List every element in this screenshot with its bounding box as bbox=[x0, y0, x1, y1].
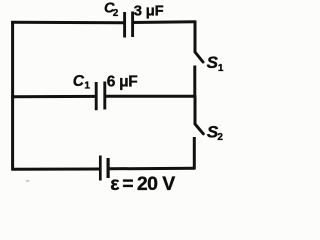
wire S2 lower contact stub bbox=[193, 137, 196, 170]
svg-text:2: 2 bbox=[217, 132, 223, 143]
svg-text:20 V: 20 V bbox=[137, 173, 175, 195]
wire top right segment bbox=[133, 20, 197, 24]
wire top left segment bbox=[11, 21, 124, 25]
battery long plate (left) bbox=[99, 156, 102, 181]
capacitor C2 right plate bbox=[131, 12, 134, 38]
svg-text:C: C bbox=[73, 73, 85, 90]
capacitor C1 right plate bbox=[103, 82, 106, 110]
svg-text:=: = bbox=[122, 173, 133, 195]
wire middle left segment bbox=[11, 95, 96, 98]
svg-text:6 μF: 6 μF bbox=[107, 73, 138, 90]
svg-text:3 μF: 3 μF bbox=[134, 4, 164, 20]
label S2 bbox=[207, 123, 224, 144]
label C1 bbox=[73, 73, 91, 92]
switch S2 blade bbox=[195, 124, 203, 134]
switch S1 blade bbox=[195, 52, 203, 62]
wire right vertical upper (top corner to S1) bbox=[194, 21, 197, 53]
wire middle right segment bbox=[105, 95, 197, 98]
svg-text:S: S bbox=[207, 53, 219, 72]
battery short plate (right) bbox=[106, 158, 109, 178]
svg-text:1: 1 bbox=[84, 81, 90, 92]
wire bottom right segment bbox=[108, 167, 195, 171]
wire right vertical (middle wire to S2) bbox=[194, 96, 197, 124]
wire S1 lower contact stub bbox=[193, 66, 196, 98]
svg-text:1: 1 bbox=[218, 63, 224, 74]
label S1 bbox=[207, 53, 224, 74]
svg-text:2: 2 bbox=[113, 8, 119, 19]
label C2 bbox=[104, 1, 119, 19]
capacitor C2 left plate bbox=[123, 12, 126, 38]
svg-text:ε: ε bbox=[110, 173, 119, 195]
scan smudge mark bbox=[26, 180, 30, 182]
wire bottom left segment bbox=[12, 168, 100, 171]
wire left vertical bbox=[11, 21, 14, 171]
capacitor C1 left plate bbox=[95, 82, 98, 110]
